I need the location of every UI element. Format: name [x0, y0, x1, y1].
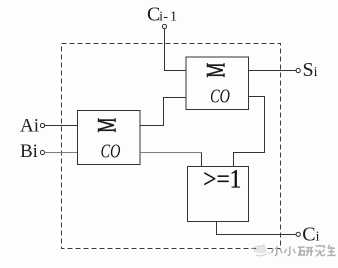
研 — [298, 246, 305, 248]
svg-text:Bi: Bi — [20, 141, 38, 162]
wire U3 output to Ci — [217, 222, 297, 235]
watermark logo — [253, 245, 271, 256]
svg-text:>=1: >=1 — [203, 165, 241, 193]
svg-text:CO: CO — [101, 140, 121, 162]
svg-text:CO: CO — [210, 85, 230, 107]
小 — [275, 246, 277, 255]
究 — [319, 245, 321, 246]
wire segment down into U3 — [201, 153, 203, 167]
dashed boundary box — [62, 44, 281, 249]
wire Ci-1 to half-adder U2 input — [165, 29, 187, 71]
half adder U1 box — [78, 111, 141, 165]
wire U2 CO output to OR gate U3 — [234, 97, 265, 167]
wire U2 sum output to Si — [249, 70, 297, 72]
terminal Ai — [40, 123, 44, 127]
小 — [288, 246, 290, 255]
terminal Bi — [40, 150, 44, 154]
U1 sigma (rotated M) label — [98, 118, 116, 132]
terminal Si — [296, 68, 300, 72]
wire U1 CO output to OR gate U3 — [140, 152, 202, 154]
terminal Ci-1 — [162, 24, 166, 28]
wire Bi to half-adder U1 — [45, 152, 78, 154]
terminal Ci — [296, 232, 300, 236]
svg-text:Ai: Ai — [20, 116, 39, 137]
生 — [328, 247, 335, 249]
watermark text 小小研究生 — [272, 245, 336, 256]
wire U1 sum output to U2 input — [140, 98, 186, 126]
wire Ai to half-adder U1 — [45, 125, 78, 127]
U2 sigma (rotated M) label — [207, 63, 225, 77]
OR gate U3 box — [188, 167, 249, 222]
half adder U2 box — [186, 57, 249, 110]
